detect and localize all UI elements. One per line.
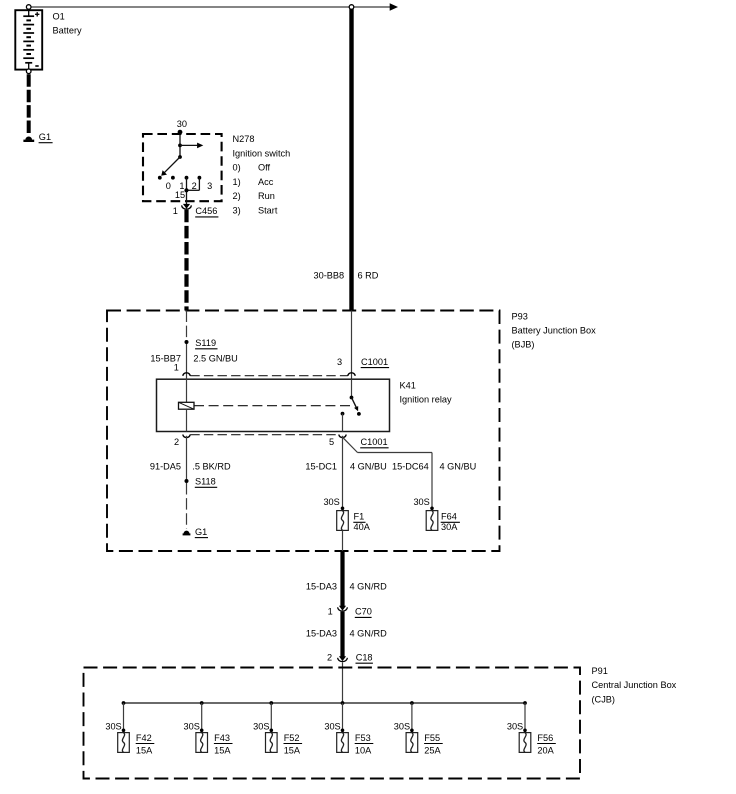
svg-text:6 RD: 6 RD: [358, 271, 379, 281]
svg-text:2: 2: [192, 181, 197, 191]
svg-text:30: 30: [177, 119, 187, 129]
svg-text:F56: F56: [537, 733, 553, 743]
svg-text:F52: F52: [284, 733, 300, 743]
svg-text:(CJB): (CJB): [592, 694, 615, 704]
svg-text:25A: 25A: [424, 745, 441, 755]
svg-text:F64: F64: [441, 512, 457, 522]
svg-text:C456: C456: [195, 206, 217, 216]
svg-text:15-DA3: 15-DA3: [306, 581, 337, 591]
svg-text:O1: O1: [53, 12, 65, 22]
svg-text:15A: 15A: [214, 745, 231, 755]
svg-text:2: 2: [174, 437, 179, 447]
svg-text:Off: Off: [258, 163, 271, 173]
svg-text:4 GN/BU: 4 GN/BU: [440, 461, 477, 471]
svg-text:F53: F53: [355, 733, 371, 743]
svg-text:5: 5: [329, 437, 334, 447]
svg-text:15-DC64: 15-DC64: [392, 461, 429, 471]
svg-text:30S: 30S: [394, 721, 410, 731]
svg-text:S118: S118: [195, 477, 216, 487]
svg-text:0: 0: [166, 181, 171, 191]
svg-text:3: 3: [207, 181, 212, 191]
svg-text:3): 3): [233, 206, 241, 216]
svg-text:10A: 10A: [355, 745, 372, 755]
svg-text:15: 15: [175, 190, 185, 200]
svg-text:30S: 30S: [413, 497, 429, 507]
svg-text:30A: 30A: [441, 522, 458, 532]
svg-text:30S: 30S: [253, 721, 269, 731]
svg-text:(BJB): (BJB): [512, 340, 535, 350]
svg-text:1: 1: [174, 363, 179, 373]
svg-text:30-BB8: 30-BB8: [314, 271, 345, 281]
svg-text:2: 2: [327, 652, 332, 662]
svg-text:30S: 30S: [507, 721, 523, 731]
svg-text:Run: Run: [258, 191, 275, 201]
svg-text:30S: 30S: [184, 721, 200, 731]
svg-text:4 GN/RD: 4 GN/RD: [350, 581, 388, 591]
svg-text:C1001: C1001: [361, 357, 388, 367]
svg-text:P91: P91: [592, 666, 608, 676]
svg-text:15-DC1: 15-DC1: [305, 461, 337, 471]
svg-text:0): 0): [233, 163, 241, 173]
svg-text:4 GN/BU: 4 GN/BU: [350, 461, 387, 471]
svg-text:15-DA3: 15-DA3: [306, 629, 337, 639]
svg-text:Ignition relay: Ignition relay: [400, 395, 452, 405]
svg-text:15A: 15A: [284, 745, 301, 755]
svg-text:15A: 15A: [136, 745, 153, 755]
svg-text:20A: 20A: [537, 745, 554, 755]
svg-text:Central Junction Box: Central Junction Box: [592, 680, 677, 690]
svg-text:1): 1): [233, 177, 241, 187]
svg-text:Start: Start: [258, 206, 278, 216]
svg-text:C18: C18: [356, 652, 373, 662]
svg-text:Battery Junction Box: Battery Junction Box: [512, 326, 597, 336]
svg-text:Ignition switch: Ignition switch: [233, 148, 291, 158]
svg-text:S119: S119: [195, 338, 216, 348]
svg-text:K41: K41: [400, 380, 416, 390]
svg-text:G1: G1: [39, 132, 51, 142]
svg-text:30S: 30S: [324, 721, 340, 731]
svg-text:2.5 GN/BU: 2.5 GN/BU: [193, 354, 237, 364]
svg-text:1: 1: [173, 206, 178, 216]
svg-text:.5 BK/RD: .5 BK/RD: [192, 461, 231, 471]
svg-text:4 GN/RD: 4 GN/RD: [350, 629, 388, 639]
svg-text:P93: P93: [512, 312, 528, 322]
svg-text:F1: F1: [354, 512, 365, 522]
svg-text:30S: 30S: [105, 721, 121, 731]
svg-text:F43: F43: [214, 733, 230, 743]
svg-text:N278: N278: [233, 134, 255, 144]
svg-text:Battery: Battery: [53, 25, 83, 35]
svg-text:1: 1: [328, 607, 333, 617]
svg-text:C1001: C1001: [361, 437, 388, 447]
svg-text:30S: 30S: [323, 497, 339, 507]
svg-text:2): 2): [233, 191, 241, 201]
svg-text:91-DA5: 91-DA5: [150, 461, 181, 471]
svg-text:C70: C70: [355, 607, 372, 617]
svg-text:40A: 40A: [354, 522, 371, 532]
svg-text:3: 3: [337, 357, 342, 367]
svg-text:F55: F55: [424, 733, 440, 743]
svg-text:Acc: Acc: [258, 177, 274, 187]
svg-text:G1: G1: [195, 527, 207, 537]
svg-text:F42: F42: [136, 733, 152, 743]
